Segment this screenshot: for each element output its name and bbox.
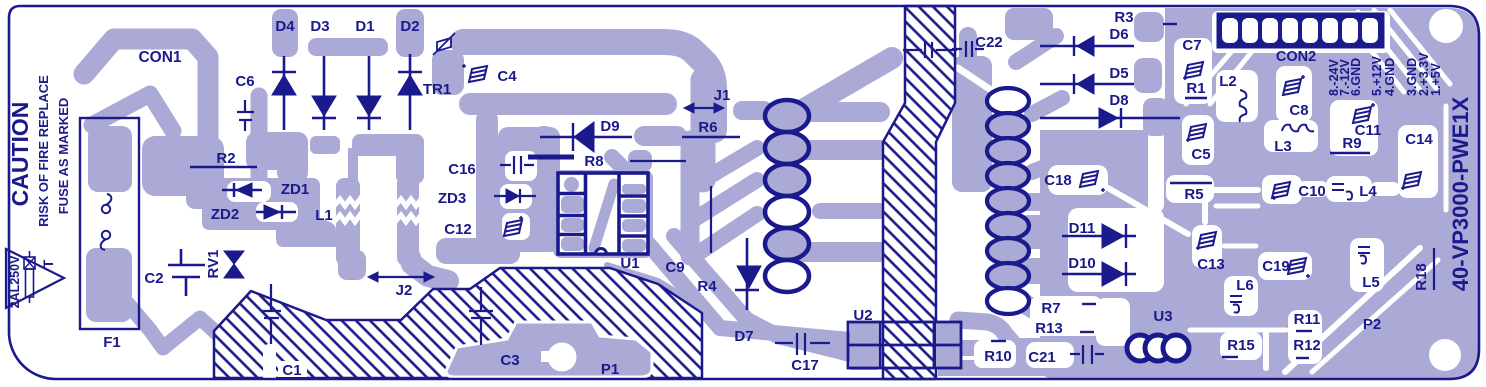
node U2 right lavender cells <box>936 322 961 368</box>
capacitor C5 <box>1188 124 1206 140</box>
wire white channel voltage zone 4 <box>1390 10 1450 84</box>
wire transformer left stub 2 <box>798 140 880 160</box>
node U2 left lavender cells <box>850 322 878 370</box>
wire xfmr right out 2 <box>1032 160 1062 172</box>
svg-text:C12: C12 <box>444 221 472 238</box>
wire diagonal to D6 <box>1016 36 1056 62</box>
capacitor C11 <box>1353 107 1371 123</box>
wire C6 vertical <box>251 96 268 186</box>
wire transformer left stub 4 <box>820 203 880 219</box>
fuse F1 outline <box>80 118 139 329</box>
node R5 white island <box>1166 175 1214 203</box>
wire white channel right of C14 <box>1444 106 1449 210</box>
node C18 white island <box>1048 165 1108 195</box>
svg-text:D2: D2 <box>400 18 419 35</box>
wire band under C21 <box>1000 338 1132 364</box>
svg-text:C5: C5 <box>1191 146 1210 163</box>
wire mass under CON1 <box>142 136 224 196</box>
node D2 top pad <box>396 9 424 57</box>
node R15 white island <box>1220 332 1262 360</box>
node P1 mounting hole <box>548 343 577 372</box>
wire white channel under CON2 1 <box>1186 50 1233 104</box>
wire fan diagonal 1 <box>695 148 757 185</box>
node D9 pad <box>634 126 687 146</box>
svg-text:U3: U3 <box>1153 308 1172 325</box>
node C5 white island <box>1182 115 1214 165</box>
connector CON2 <box>1218 14 1383 47</box>
wire white channel R5 to C10 <box>1214 187 1258 193</box>
svg-text:C8: C8 <box>1289 102 1308 119</box>
svg-text:C21: C21 <box>1028 349 1056 366</box>
svg-text:RV1: RV1 <box>205 250 222 279</box>
svg-text:CAUTION: CAUTION <box>7 102 33 207</box>
capacitor C17 <box>775 333 830 355</box>
wire neck under D1 <box>348 148 358 182</box>
capacitor C8 <box>1283 79 1301 95</box>
svg-text:D7: D7 <box>734 328 753 345</box>
node C1 label white area <box>278 361 307 377</box>
wire finger CON2 to D6 area 1 <box>1178 24 1208 52</box>
wire band to D10 <box>1028 258 1068 284</box>
node pad under D1-D2 <box>352 134 424 156</box>
node ZD1 white pocket <box>227 181 271 202</box>
node C1 slot <box>263 344 276 378</box>
svg-text:R4: R4 <box>697 278 717 295</box>
fuse F1 squiggle <box>102 205 110 213</box>
node C13 white island <box>1192 225 1222 268</box>
svg-text:2AL250V: 2AL250V <box>8 255 22 308</box>
wire white channel mid right 2 <box>1224 244 1256 249</box>
node L3 white island <box>1264 120 1318 152</box>
svg-text:P2: P2 <box>1363 316 1381 333</box>
svg-text:40-VP3000-PWE1X: 40-VP3000-PWE1X <box>1448 96 1473 291</box>
svg-text:L5: L5 <box>1362 274 1380 291</box>
node pad under D4 <box>246 132 308 170</box>
svg-text:D5: D5 <box>1109 65 1128 82</box>
node ZD3 white island <box>500 184 532 209</box>
inductor L1 left winding trace <box>336 178 360 266</box>
capacitor C13 <box>1198 232 1216 248</box>
svg-text:R6: R6 <box>698 119 717 136</box>
wire mega vertical <box>691 80 716 180</box>
wire U1 diagonal out 1 <box>645 240 850 340</box>
wire diagonal to core strip <box>782 58 892 122</box>
wire mega lower arm <box>470 93 666 115</box>
wire fan vertical <box>681 140 700 256</box>
copper pour right side upper <box>1165 8 1478 130</box>
svg-text:FUSE AS MARKED: FUSE AS MARKED <box>56 98 71 215</box>
wire D2 pad extension down <box>396 134 424 184</box>
node ZD1 ZD2 mass <box>202 178 336 247</box>
svg-text:D6: D6 <box>1109 26 1128 43</box>
svg-text:R7: R7 <box>1041 300 1060 317</box>
inductor L5 <box>1358 247 1370 264</box>
wire top blob right of strip <box>1005 8 1053 40</box>
wire band to hatch via C12 <box>436 238 520 264</box>
wire white channel P2 diagonal 2 <box>1312 260 1438 372</box>
transformer secondary winding <box>987 88 1029 314</box>
svg-text:R11: R11 <box>1294 311 1321 328</box>
node L2 white island <box>1216 70 1258 122</box>
node J1 right stub <box>733 101 773 120</box>
copper pour right side lower <box>1040 130 1478 379</box>
wire white channel in patch <box>958 68 1000 96</box>
svg-text:R8: R8 <box>584 153 603 170</box>
node C16 white island <box>505 151 537 181</box>
node U3 left white island <box>1096 298 1130 346</box>
svg-text:5.+12V: 5.+12V <box>1370 55 1384 96</box>
node R11 R12 white island <box>1288 310 1322 364</box>
svg-text:D8: D8 <box>1109 92 1128 109</box>
inductor L1 right winding trace <box>397 176 419 266</box>
svg-text:D10: D10 <box>1068 255 1096 272</box>
wire finger CON2 to D6 area 2 <box>1196 34 1224 62</box>
svg-text:L1: L1 <box>315 207 333 224</box>
inductor L3 <box>1282 125 1314 132</box>
wire U2 bottom band <box>958 320 1012 342</box>
node C10 white island <box>1262 175 1302 204</box>
svg-text:P1: P1 <box>601 361 619 378</box>
svg-text:C17: C17 <box>791 357 819 374</box>
svg-text:U2: U2 <box>853 307 872 324</box>
node R10 white pocket <box>974 340 1016 368</box>
wire white channel P2 diagonal 1 <box>1285 248 1420 372</box>
node L6 white island <box>1224 276 1258 316</box>
svg-text:R15: R15 <box>1227 337 1255 354</box>
node stub left of D9 <box>534 126 554 146</box>
wire C12 below blob <box>482 234 520 256</box>
svg-text:TR1: TR1 <box>423 81 451 98</box>
capacitor C22 symbol <box>952 41 984 57</box>
svg-text:R5: R5 <box>1184 186 1203 203</box>
fuse icon in triangle <box>24 257 35 269</box>
node mounting hole top right <box>1429 9 1463 43</box>
wire CON1 inner finger <box>92 94 173 131</box>
wire white channel C18 to C13 <box>1108 188 1188 234</box>
svg-text:C1: C1 <box>282 362 301 379</box>
svg-text:ZD1: ZD1 <box>281 181 309 198</box>
svg-text:R3: R3 <box>1114 9 1133 26</box>
wire thin trace along hatch edge <box>607 265 704 309</box>
capacitor C2 <box>168 249 205 296</box>
wire mass around ZD3 C16 C12 <box>498 127 560 252</box>
svg-text:C3: C3 <box>500 352 519 369</box>
ground plane hatched bottom-left <box>214 268 702 378</box>
wire mega top trace <box>463 42 714 130</box>
svg-text:C9: C9 <box>665 259 684 276</box>
wire fan diagonal 3 <box>700 214 757 252</box>
wire white channel bottom mid <box>1190 328 1286 333</box>
svg-text:1.+5V: 1.+5V <box>1429 62 1443 96</box>
wire CON1 hook <box>84 39 208 145</box>
svg-text:R18: R18 <box>1413 263 1430 291</box>
svg-text:C6: C6 <box>235 73 254 90</box>
wire white channel under CON2 2 <box>1210 50 1253 104</box>
svg-text:C13: C13 <box>1197 256 1225 273</box>
svg-text:J2: J2 <box>396 282 413 299</box>
capacitor C3 symbol <box>469 287 493 345</box>
svg-text:RISK OF FIRE REPLACE: RISK OF FIRE REPLACE <box>36 75 51 227</box>
warning triangle <box>6 249 64 308</box>
svg-text:C14: C14 <box>1405 131 1433 148</box>
node C11 R9 white island <box>1330 100 1378 156</box>
node D3-D1 shared pad <box>308 38 388 56</box>
node CON2 white margin <box>1212 11 1390 53</box>
svg-text:R12: R12 <box>1293 337 1321 354</box>
wire xfmr right out 1 <box>1032 98 1062 114</box>
wire xfmr right stub <box>1028 193 1056 211</box>
svg-text:R2: R2 <box>216 150 235 167</box>
wire transformer left stub 3 <box>798 242 880 262</box>
svg-text:C7: C7 <box>1182 37 1201 54</box>
svg-text:R10: R10 <box>984 348 1012 365</box>
node L5 white island <box>1350 238 1384 292</box>
svg-text:ZD3: ZD3 <box>438 190 466 207</box>
svg-text:C22: C22 <box>975 34 1003 51</box>
wire white channel mid right 1 <box>1216 204 1258 209</box>
svg-text:C16: C16 <box>448 161 476 178</box>
capacitor C1 symbol <box>262 284 281 344</box>
IC U1 <box>558 173 648 254</box>
wire white channel C10 to L4 <box>1298 181 1328 197</box>
node F1 pad top <box>88 126 132 192</box>
svg-text:C2: C2 <box>144 270 163 287</box>
wire white channel R15 down <box>1263 332 1269 368</box>
svg-text:D11: D11 <box>1069 220 1096 237</box>
wire bottom strip along border <box>938 360 1133 376</box>
node pad under D3 <box>310 136 340 154</box>
svg-text:6.GND: 6.GND <box>1349 58 1363 96</box>
node R7 R13 white island <box>1030 296 1102 336</box>
svg-text:R13: R13 <box>1035 320 1063 337</box>
node C8 white island <box>1276 66 1312 122</box>
svg-text:C4: C4 <box>497 68 517 85</box>
capacitor C10 <box>1272 182 1290 198</box>
wire R8 diagonal <box>612 157 632 177</box>
node C14 white island <box>1398 125 1438 198</box>
svg-text:T: T <box>40 259 56 268</box>
node TR1 blob <box>432 50 464 95</box>
svg-text:J1: J1 <box>714 87 731 104</box>
svg-text:D3: D3 <box>310 18 329 35</box>
wire white channel voltage zone 1 <box>1342 14 1404 92</box>
wire white channel voltage zone 3 <box>1374 10 1436 88</box>
diode D7 <box>735 238 759 310</box>
svg-text:R1: R1 <box>1186 80 1205 97</box>
svg-text:L6: L6 <box>1236 277 1254 294</box>
svg-text:D9: D9 <box>600 118 619 135</box>
wire U1 diagonal out 2 <box>674 236 850 354</box>
varistor RV1 <box>224 251 244 278</box>
node C3 P1 lavender island <box>446 322 652 377</box>
svg-text:C11: C11 <box>1355 122 1382 139</box>
node L4 white island <box>1326 176 1372 202</box>
IC U2 <box>848 322 961 368</box>
wire transformer left stub 1 <box>798 102 880 122</box>
inductor L1 sawteeth <box>334 199 363 206</box>
node C12 white island <box>502 213 530 240</box>
wire L1 left bottom blob <box>338 250 366 280</box>
wire xfmr bottom diagonal <box>1018 300 1056 322</box>
wire L1 right bottom elbow <box>408 252 448 281</box>
wire xfmr diagonal extension <box>1052 320 1130 342</box>
node mounting hole bottom right <box>1429 339 1461 371</box>
node D6 cathode pad repeat <box>1134 12 1164 42</box>
wire band to D11 <box>1028 215 1068 249</box>
svg-text:D1: D1 <box>355 18 374 35</box>
wire white channel left of R5 <box>1148 126 1164 212</box>
svg-text:F1: F1 <box>103 334 121 351</box>
svg-text:CON1: CON1 <box>138 49 181 66</box>
svg-text:C10: C10 <box>1298 183 1326 200</box>
wire vertical right of ZD3 <box>476 120 498 244</box>
wire C22 vertical <box>959 36 977 92</box>
wire xfmr bottom band <box>1036 342 1090 362</box>
wire stub left of ZD2 <box>186 185 226 209</box>
svg-text:4.GND: 4.GND <box>1383 58 1397 96</box>
node D4 top pad <box>272 9 298 57</box>
node C19 white island <box>1258 252 1312 280</box>
svg-text:C18: C18 <box>1044 172 1072 189</box>
wire white channel above C13 <box>1202 200 1208 222</box>
inductor L4 <box>1332 184 1352 200</box>
node U1 backing <box>553 170 653 258</box>
transformer core hatched strip <box>883 6 955 379</box>
svg-text:D4: D4 <box>275 18 295 35</box>
capacitor C4 <box>469 66 487 82</box>
wire fan diagonal 2 <box>690 180 757 222</box>
node C7 R1 white island <box>1174 38 1212 104</box>
svg-text:ZD2: ZD2 <box>211 206 239 223</box>
svg-text:L3: L3 <box>1274 138 1292 155</box>
node F1 pad bottom <box>86 248 132 322</box>
wire white channel voltage zone 2 <box>1358 12 1420 90</box>
svg-text:CON2: CON2 <box>1276 49 1316 65</box>
wire lavender patch right of strip <box>952 56 992 192</box>
svg-text:C19: C19 <box>1262 258 1290 275</box>
svg-text:L2: L2 <box>1219 73 1237 90</box>
wire white channel L4 to C14 <box>1370 182 1400 196</box>
svg-text:L4: L4 <box>1359 183 1377 200</box>
svg-text:U1: U1 <box>620 255 639 272</box>
node D11 D10 white island <box>1068 208 1164 292</box>
wire F1 bottom zigzag <box>128 304 242 348</box>
node C21 white island <box>1026 342 1074 368</box>
wire stub above U1 <box>628 150 652 172</box>
capacitor on core strip <box>903 42 957 58</box>
node ZD2 white pocket <box>256 202 298 222</box>
transformer primary winding <box>765 100 809 292</box>
